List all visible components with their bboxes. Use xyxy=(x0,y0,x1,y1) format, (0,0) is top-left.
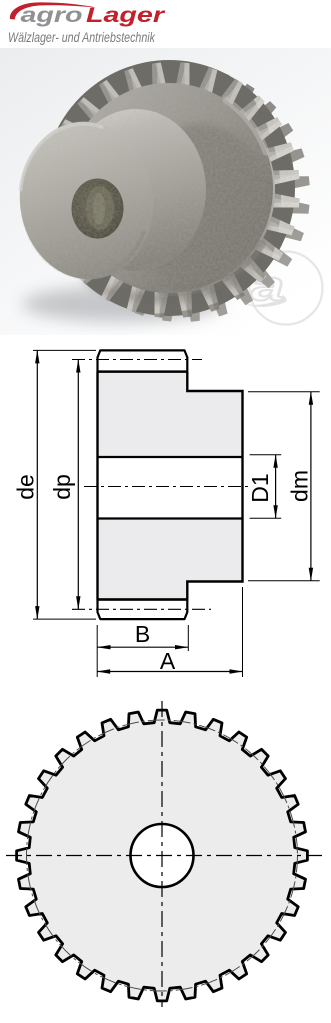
teeth front ring xyxy=(44,62,299,317)
watermark circle xyxy=(250,252,323,325)
extension lines dm xyxy=(248,392,320,581)
dim de xyxy=(36,350,38,619)
bottom tooth band xyxy=(98,600,188,620)
gear shadow xyxy=(22,286,222,322)
dim B xyxy=(98,646,189,648)
svg-text:dm: dm xyxy=(287,470,313,502)
svg-text:Wälzlager- und Antriebstechnik: Wälzlager- und Antriebstechnik xyxy=(8,30,156,45)
bottom pitch dash-dot xyxy=(72,608,211,610)
gear outline with teeth xyxy=(17,710,308,1001)
extension lines D1 xyxy=(250,455,282,519)
teeth highlight right xyxy=(30,78,320,338)
bore hole xyxy=(72,179,124,239)
disc radial streaks xyxy=(160,100,266,293)
bore white strip xyxy=(96,457,244,519)
top tooth band xyxy=(98,350,188,371)
top pitch dash-dot xyxy=(72,359,202,361)
bore inner streaks xyxy=(86,186,114,230)
svg-text:dp: dp xyxy=(49,474,75,500)
svg-text:Lager: Lager xyxy=(86,3,166,27)
vertical center line xyxy=(161,701,163,1007)
svg-text:agro: agro xyxy=(21,3,83,27)
dim dm xyxy=(310,392,312,581)
header logo area xyxy=(0,0,331,48)
hub front face xyxy=(11,114,162,287)
dim D1 xyxy=(275,455,277,519)
horizontal center line xyxy=(6,855,324,857)
cross-section technical drawing xyxy=(0,335,331,690)
valley ring dark xyxy=(43,60,295,316)
hub side cylinder xyxy=(66,109,206,271)
dim dp xyxy=(77,360,79,610)
metal grain xyxy=(20,62,300,317)
svg-text:de: de xyxy=(13,474,39,500)
photo background xyxy=(0,48,331,335)
logo swoosh xyxy=(10,2,96,19)
disc face inner shading xyxy=(130,124,270,288)
disc face xyxy=(65,83,273,293)
extension line B right xyxy=(187,625,189,651)
front view gear drawing xyxy=(0,690,331,1018)
watermark a swoosh xyxy=(243,296,287,307)
center line dash-dot xyxy=(84,486,250,488)
pitch circle xyxy=(27,720,298,991)
teeth back ring xyxy=(54,66,309,321)
svg-text:D1: D1 xyxy=(247,473,273,502)
center hole xyxy=(131,824,194,887)
extension line A left xyxy=(96,625,98,677)
bore lines xyxy=(98,457,243,519)
svg-text:B: B xyxy=(135,621,150,647)
gear body section fill xyxy=(98,372,243,600)
disc lower crescent xyxy=(80,263,258,303)
extension line tip bottom xyxy=(33,618,96,620)
body outline xyxy=(98,372,243,600)
bore streak xyxy=(93,193,105,225)
extension line tip top xyxy=(33,349,96,351)
dim A xyxy=(97,671,242,673)
teeth flank shadows xyxy=(43,61,301,319)
svg-text:A: A xyxy=(160,648,176,674)
product photo xyxy=(0,48,331,335)
extension line A right xyxy=(242,587,244,677)
